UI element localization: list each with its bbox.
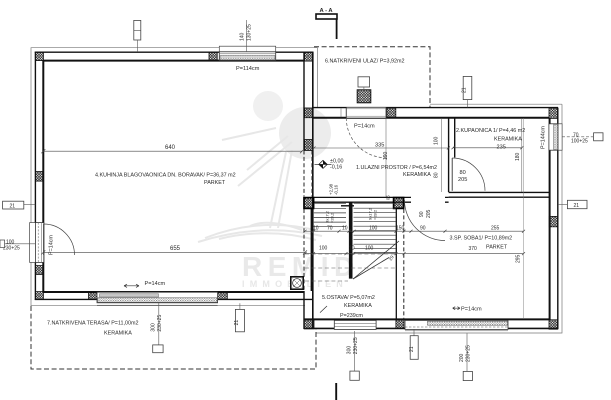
marker B4 21 vertical — [409, 330, 418, 360]
svg-text:PARKET: PARKET — [204, 180, 226, 186]
svg-text:6.NATKRIVENI ULAZ/ P=3,92m2: 6.NATKRIVENI ULAZ/ P=3,92m2 — [325, 58, 404, 64]
svg-text:2.KUPAONICA 1/ P=4,46 m2: 2.KUPAONICA 1/ P=4,46 m2 — [456, 128, 525, 134]
svg-text:100: 100 — [369, 226, 378, 232]
dim row2 line — [305, 253, 524, 255]
svg-text:90: 90 — [420, 226, 426, 232]
svg-text:80: 80 — [460, 170, 466, 176]
svg-text:80: 80 — [434, 172, 440, 178]
hall vertical dim 190 — [385, 118, 387, 197]
wall big room east inner line dashed opening upper — [303, 151, 305, 197]
svg-text:=28,2: =28,2 — [373, 209, 378, 220]
pier left wall mid — [35, 172, 43, 182]
svg-text:140: 140 — [240, 32, 246, 41]
pier stairs NW black border — [304, 198, 314, 209]
window W1 top wall — [219, 46, 275, 60]
svg-text:-0,16: -0,16 — [330, 164, 342, 170]
svg-text:640: 640 — [165, 145, 176, 151]
wall storage west dashed line — [303, 209, 305, 291]
wall top of big room outer line — [35, 51, 314, 53]
dim line 640 big room — [43, 150, 302, 152]
pier big room NW corner — [35, 52, 43, 60]
wall big room east inner line upper solid — [303, 52, 305, 150]
wall storage west solid line — [310, 209, 312, 291]
wall storage west lower solid segment — [304, 291, 313, 329]
svg-text:P=14cm: P=14cm — [49, 235, 55, 255]
svg-text:P=239cm: P=239cm — [340, 313, 363, 319]
svg-text:KERAMIKA: KERAMIKA — [344, 303, 372, 309]
svg-text:295: 295 — [516, 254, 522, 263]
extension line right dims — [523, 118, 525, 318]
wall right block top inner line — [313, 117, 549, 119]
svg-text:230+25: 230+25 — [157, 315, 163, 332]
dashed boundary covered terrace — [31, 306, 316, 369]
svg-text:21: 21 — [574, 203, 580, 209]
bathroom dim 235 — [453, 147, 522, 149]
wall big room east other leaf dashed opening upper — [311, 151, 313, 197]
pier bottom wall between storage and bedroom — [396, 320, 404, 329]
window W3 bathroom east wall — [549, 124, 562, 150]
svg-text:235: 235 — [497, 144, 506, 150]
svg-text:=28,2: =28,2 — [330, 212, 335, 223]
marker T1 top left — [134, 20, 141, 52]
svg-text:P=14cm: P=14cm — [354, 124, 375, 130]
svg-text:P=14cm: P=14cm — [145, 281, 166, 287]
window W6 label arrow + P=14cm — [453, 307, 460, 310]
outer facade thin line bottom of big room — [31, 305, 305, 307]
window W4 bottom wall of big room — [97, 292, 218, 305]
svg-text:P=14cm: P=14cm — [461, 307, 482, 313]
svg-text:370: 370 — [469, 246, 478, 252]
marker R2 21 right — [558, 200, 587, 209]
pier stairs NE black border — [394, 198, 404, 209]
marker B1 below big window — [151, 303, 164, 353]
pier right block SE corner — [549, 320, 558, 329]
marker L1 21 left — [3, 201, 36, 209]
svg-text:70: 70 — [573, 132, 579, 138]
outer facade thin line porch side of inner wall — [317, 48, 319, 107]
entrance door D1 opening — [341, 108, 386, 118]
wall bathroom south inner — [449, 191, 550, 193]
wall bottom of big room outer line — [35, 298, 314, 300]
svg-text:21: 21 — [234, 320, 240, 326]
window W1 dim leader vertical — [246, 20, 248, 52]
marker B5 below bedroom window — [459, 333, 472, 380]
svg-text:-0,16: -0,16 — [334, 184, 339, 195]
hall dim 335 line — [314, 147, 448, 149]
hall vertical dim 80 — [441, 158, 443, 192]
svg-text:100+25: 100+25 — [571, 139, 588, 145]
storage leader diagonal — [320, 306, 327, 313]
svg-text:P=144cm: P=144cm — [541, 126, 547, 149]
wall left of big room inner line — [42, 60, 44, 293]
wall right block bottom inner line — [304, 318, 550, 320]
svg-text:70: 70 — [327, 226, 333, 232]
svg-text:KERAMIKA: KERAMIKA — [403, 172, 431, 178]
marker B3 below storage window — [347, 331, 360, 380]
outer facade thin line right block top — [430, 103, 562, 105]
svg-text:10: 10 — [349, 245, 355, 251]
svg-text:230+25: 230+25 — [353, 337, 359, 354]
dim line 655 big room — [43, 251, 305, 253]
wall bedroom west stair side solid — [395, 209, 397, 319]
dim row1 ticks — [304, 230, 526, 233]
svg-text:230+25: 230+25 — [466, 345, 472, 362]
entrance door D1 swing arc dashed — [346, 118, 386, 158]
outer facade thin line right block right+bottom — [316, 104, 562, 333]
wall bathroom west — [449, 118, 455, 192]
svg-text:100: 100 — [434, 136, 440, 145]
window W5 storage bottom — [334, 320, 376, 329]
pier east wall of big room at porch top — [305, 108, 314, 118]
outer facade thin line left+top of big room — [31, 48, 318, 306]
svg-text:KERAMIKA: KERAMIKA — [104, 330, 132, 336]
window W6 bedroom bottom — [405, 320, 508, 330]
svg-text:230+25: 230+25 — [3, 245, 20, 251]
staircase center wall — [349, 202, 353, 278]
staircase left flight treads — [314, 204, 346, 227]
wall bedroom west dashed — [403, 209, 405, 319]
svg-text:335: 335 — [375, 143, 384, 149]
pier east wall big room mid — [305, 140, 314, 151]
svg-text:21: 21 — [10, 203, 16, 209]
bathroom door D3 leaf and arc — [451, 158, 453, 191]
svg-text:5.OSTAVA/ P=5,07m2: 5.OSTAVA/ P=5,07m2 — [322, 295, 375, 301]
hall vertical dim 100 at bathroom wall — [441, 118, 443, 158]
marker T3 21 — [462, 76, 472, 107]
pier left wall above terrace door — [35, 266, 43, 275]
pier big room SW corner — [35, 292, 43, 300]
watermark logo — [198, 91, 360, 289]
svg-text:130+25: 130+25 — [247, 24, 253, 41]
svg-text:21: 21 — [409, 346, 415, 352]
level marker diamond — [315, 160, 332, 168]
terrace door W2 swing arc — [44, 224, 75, 255]
svg-text:P=114cm: P=114cm — [236, 66, 260, 72]
staircase cut diagonals — [353, 241, 399, 279]
section symbol A-A top — [316, 8, 337, 39]
staircase right flight treads — [354, 204, 397, 253]
wall stairs north lower line — [314, 201, 449, 203]
svg-text:255: 255 — [491, 226, 500, 232]
column symbol square with circle at storage NW — [291, 277, 303, 289]
pier storage SW — [304, 319, 314, 329]
svg-text:100: 100 — [365, 245, 374, 251]
dashed boundary covered entrance — [314, 47, 430, 107]
wall right block east outer line — [557, 108, 559, 329]
wall stairs north upper line — [314, 196, 449, 198]
pier top wall mid — [209, 52, 217, 60]
svg-text:1.ULAZNI PROSTOR / P=6,54m2: 1.ULAZNI PROSTOR / P=6,54m2 — [356, 165, 437, 171]
wall right block top outer line — [313, 107, 558, 109]
pier big room E top corner — [305, 52, 314, 61]
svg-text:KERAMIKA: KERAMIKA — [494, 137, 522, 143]
svg-text:180: 180 — [515, 152, 521, 161]
wall bottom of big room inner line — [43, 291, 304, 293]
pier bottom wall right of window — [218, 292, 228, 300]
svg-text:300: 300 — [151, 323, 157, 332]
pier bottom wall left of window — [89, 292, 97, 300]
pier right block NE corner — [549, 108, 558, 118]
dim row1 stairs line — [305, 230, 524, 232]
wall bathroom south outer — [449, 196, 550, 198]
wall top of big room inner line — [44, 60, 305, 62]
wall big room east / porch west : outer line — [312, 52, 314, 329]
svg-text:205: 205 — [458, 177, 467, 183]
svg-text:4.KUHINJA BLAGOVAONICA DN. BOR: 4.KUHINJA BLAGOVAONICA DN. BORAVAK/ P=36… — [95, 173, 236, 179]
section line A-A bottom — [335, 383, 337, 400]
wall left of big room outer line — [34, 52, 36, 300]
dim row2 ticks — [304, 252, 526, 255]
svg-text:300: 300 — [347, 346, 353, 355]
svg-text:10: 10 — [342, 226, 348, 232]
pier right block top wall mid — [387, 108, 396, 118]
wall right block east inner line — [549, 118, 551, 320]
wall right block bottom outer line — [304, 327, 558, 329]
bathroom vertical dim 180 — [521, 118, 523, 192]
marker T2 porch column box — [358, 77, 370, 90]
terrace door W2 left wall — [30, 223, 44, 263]
svg-text:90: 90 — [419, 211, 425, 217]
svg-text:200: 200 — [459, 353, 465, 362]
svg-text:21: 21 — [462, 87, 468, 93]
svg-text:10: 10 — [313, 226, 319, 232]
svg-text:A - A: A - A — [320, 8, 334, 14]
svg-text:150: 150 — [396, 226, 405, 232]
svg-text:7.NATKRIVENA TERASA/ P=11,00m2: 7.NATKRIVENA TERASA/ P=11,00m2 — [47, 320, 139, 326]
svg-text:655: 655 — [170, 246, 181, 252]
pier east wall mid — [549, 216, 558, 226]
svg-text:190: 190 — [383, 151, 389, 160]
svg-text:3.SP. SOBA1/ P=10,89m2: 3.SP. SOBA1/ P=10,89m2 — [450, 236, 513, 242]
svg-text:205: 205 — [426, 209, 432, 218]
storage dashed ceiling lines — [305, 253, 396, 255]
marker B2 21 vertical — [234, 303, 244, 332]
svg-text:100: 100 — [319, 245, 328, 251]
bedroom door D4 arc — [405, 200, 446, 241]
svg-text:PARKET: PARKET — [486, 245, 508, 251]
porch column hatched — [357, 90, 371, 103]
window W4 label arrow + P=14cm — [124, 284, 139, 287]
